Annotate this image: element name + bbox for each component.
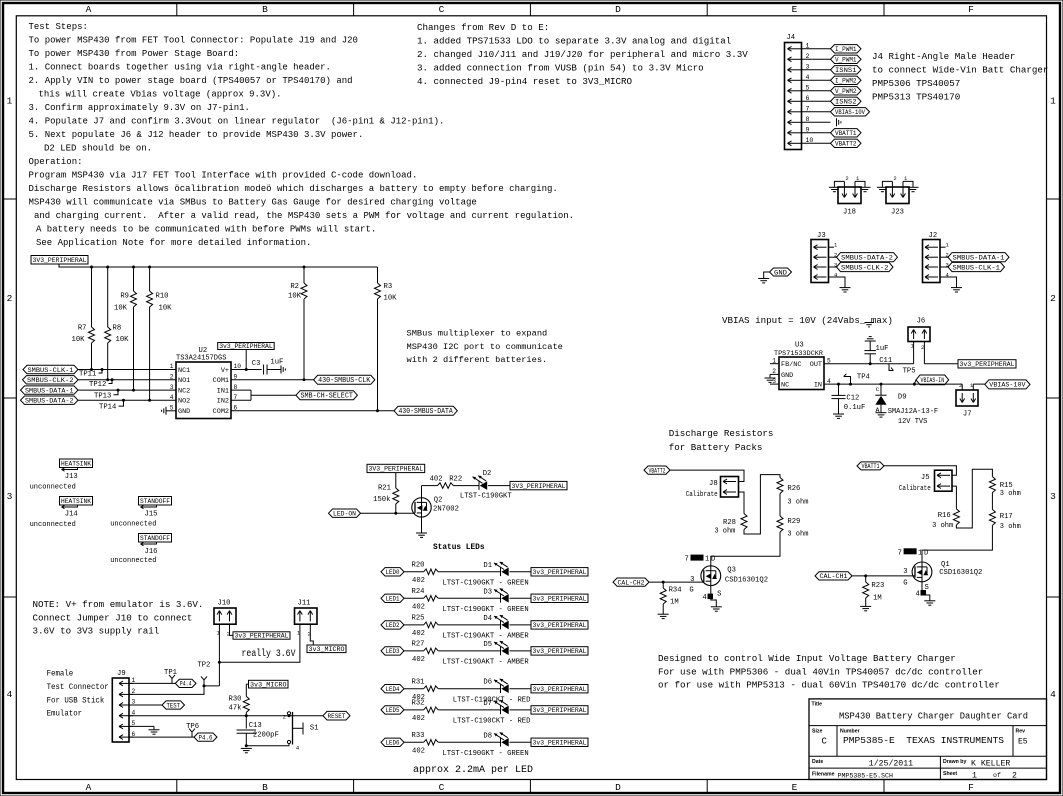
resistor R23 — [863, 576, 885, 607]
net tag TEST — [162, 701, 185, 710]
net tag 430-SMBUS-CLK — [314, 375, 375, 385]
svg-text:1: 1 — [7, 95, 13, 106]
svg-text:F: F — [968, 4, 974, 15]
svg-text:VBIAS-10V: VBIAS-10V — [835, 109, 866, 117]
connector J3 pin numbers 2 3 — [834, 252, 837, 269]
svg-text:GND: GND — [774, 269, 787, 277]
svg-text:C: C — [822, 737, 828, 747]
wire J23 pin1 to ground — [903, 181, 913, 187]
svg-text:PMP5385-E TEXAS INSTRUMENTS: PMP5385-E TEXAS INSTRUMENTS — [843, 736, 1004, 746]
junction dot S1 top on RESET — [288, 714, 291, 717]
power tag 3v3_PERIPHERAL at D6 — [531, 685, 588, 693]
svg-text:A battery needs to be communic: A battery needs to be communicated with … — [36, 225, 376, 235]
svg-text:D: D — [924, 549, 928, 557]
svg-text:NC2: NC2 — [178, 388, 190, 396]
svg-text:Q2: Q2 — [434, 496, 443, 504]
wire R25 to D4 — [438, 624, 500, 626]
junction dot R8 / SMBUS-CLK-2 — [106, 378, 109, 381]
svg-text:Female: Female — [47, 670, 74, 679]
wire SMBUS-DATA-2 to U2 pin4 — [78, 399, 176, 401]
svg-text:VBATT2: VBATT2 — [835, 141, 857, 149]
svg-text:SMBus multiplexer to expand: SMBus multiplexer to expand — [407, 329, 548, 339]
wire VBATT2 to J8 pin1 — [670, 470, 744, 481]
test point TP12 — [89, 378, 114, 389]
svg-text:SMBUS-CLK-2: SMBUS-CLK-2 — [27, 377, 74, 385]
wire J11 pin2 to 3v3_MICRO — [310, 624, 313, 645]
svg-text:E: E — [792, 4, 798, 15]
svg-text:I_PWM1: I_PWM1 — [835, 46, 857, 54]
net tag VBIAS-IN — [914, 375, 948, 385]
svg-text:2: 2 — [806, 53, 810, 60]
svg-text:10K: 10K — [288, 293, 302, 301]
label Q3 drain pins 7 8 D — [685, 555, 716, 564]
svg-text:P4.4: P4.4 — [180, 681, 192, 689]
transistor Q2 2N7002 — [412, 496, 459, 517]
svg-text:2N7002: 2N7002 — [433, 506, 459, 514]
svg-text:2: 2 — [7, 293, 13, 304]
junction dot C13 / S1 return — [245, 744, 248, 747]
wire U3 pin3 stub — [770, 383, 779, 385]
svg-text:TP12: TP12 — [89, 381, 106, 389]
wire J6 pin1 down to OUT — [913, 342, 915, 364]
svg-text:B: B — [262, 782, 268, 793]
svg-text:Calibrate: Calibrate — [899, 485, 931, 493]
wire VBATT1 to J5 pin1 — [884, 466, 956, 476]
svg-text:2: 2 — [946, 252, 949, 259]
resistor R17 — [989, 509, 1020, 531]
jumper J23 pin numbers — [893, 175, 908, 182]
net tag LED2 — [381, 621, 404, 631]
svg-text:FB/NC: FB/NC — [781, 361, 801, 369]
svg-text:5: 5 — [806, 84, 810, 91]
power tag 3V3_PERIPHERAL (rail) — [31, 256, 88, 265]
test point TP2 — [197, 662, 210, 686]
svg-text:1: 1 — [946, 242, 950, 249]
svg-text:approx 2.2mA per LED: approx 2.2mA per LED — [413, 765, 533, 776]
resistor R15 — [989, 477, 1020, 499]
junction dot R21 / gate — [394, 512, 397, 515]
net tag SMBUS-DATA-1 — [948, 253, 1009, 263]
jumper J23 pin2 arrow — [890, 182, 895, 198]
jumper J18 body — [838, 187, 861, 204]
svg-text:3 ohm: 3 ohm — [932, 522, 953, 530]
wire D1 to power tag — [510, 571, 532, 573]
svg-text:3: 3 — [170, 384, 174, 391]
resistor R25 — [412, 615, 439, 639]
wire J9 pin1 to P4.4 — [129, 682, 175, 684]
label Q3 source pin — [702, 591, 721, 603]
resistor R29 — [777, 516, 808, 539]
svg-text:J11: J11 — [298, 600, 311, 608]
net tag P4.4 — [175, 679, 196, 688]
wire R32 to D7 — [438, 709, 500, 711]
connector J4 pin 10 arrow — [788, 141, 802, 146]
junction dot R2 / COM1 — [303, 378, 306, 381]
net tag VBATT2 — [644, 466, 670, 475]
svg-text:I_PWM2: I_PWM2 — [835, 78, 857, 86]
svg-text:LED5: LED5 — [386, 707, 400, 715]
power tag 3v3_PERIPHERAL at D1 — [531, 568, 588, 576]
wire J2 pin 4 to ground — [940, 272, 957, 288]
svg-text:3: 3 — [946, 262, 949, 269]
wire U3 OUT to J6 pin1 — [824, 363, 914, 365]
svg-text:D8: D8 — [483, 732, 492, 740]
net tag VBIAS-10V — [831, 108, 870, 118]
wire J2 pin 2 — [940, 256, 948, 258]
svg-text:1. Connect boards together usi: 1. Connect boards together using via rig… — [29, 63, 331, 73]
svg-text:Status LEDs: Status LEDs — [433, 542, 485, 552]
svg-text:3: 3 — [806, 63, 810, 70]
mechanical J13 HEATSINK tag — [30, 459, 93, 492]
wire J4 pin 8 — [802, 121, 831, 123]
svg-text:V_PWM1: V_PWM1 — [835, 57, 857, 65]
svg-text:TP14: TP14 — [99, 404, 116, 412]
net tag VBIAS-10V — [985, 380, 1030, 390]
svg-text:R34: R34 — [669, 586, 682, 594]
svg-text:J16: J16 — [145, 548, 158, 556]
svg-text:3: 3 — [834, 262, 837, 269]
svg-text:Operation:: Operation: — [29, 157, 83, 167]
wire D5 to power tag — [510, 650, 532, 652]
note text: discharge resistors for battery packs — [669, 428, 774, 453]
svg-text:unconnected: unconnected — [30, 484, 76, 492]
net tag LED1 — [381, 594, 404, 604]
svg-text:C: C — [439, 4, 445, 15]
net tag VBATT2 — [831, 139, 862, 149]
wire D8 to power tag — [510, 741, 532, 743]
svg-text:3V3_PERIPHERAL: 3V3_PERIPHERAL — [369, 466, 424, 473]
svg-text:MSP430 Battery Charger Daughte: MSP430 Battery Charger Daughter Card — [839, 712, 1028, 722]
resistor R3 — [375, 267, 398, 411]
svg-text:really 3.6V: really 3.6V — [242, 648, 296, 659]
svg-text:Emulator: Emulator — [47, 710, 83, 719]
svg-text:R22: R22 — [449, 475, 462, 483]
net tag SMBUS-DATA-2 — [21, 396, 79, 406]
svg-text:CSD16301Q2: CSD16301Q2 — [725, 577, 768, 585]
connector J3 pin 4 arrow — [814, 275, 827, 280]
svg-text:4: 4 — [1050, 689, 1056, 700]
jumper J18 pin2 arrow — [842, 182, 847, 198]
ground at J18 pin2 — [829, 187, 840, 191]
ground at J23 pin1 — [908, 187, 919, 191]
ground below D9 — [876, 413, 887, 417]
svg-text:J7: J7 — [963, 411, 972, 419]
wire LED3 to R27 — [404, 650, 424, 652]
svg-text:Filename: Filename — [812, 771, 835, 777]
junction dot R30 / RESET — [245, 714, 248, 717]
connector J3 pin 2 arrow — [814, 255, 827, 260]
svg-text:R25: R25 — [412, 615, 425, 623]
svg-text:this will create Vbias voltage: this will create Vbias voltage (approx 9… — [39, 90, 282, 100]
svg-text:3.6V to 3V3 supply rail: 3.6V to 3V3 supply rail — [33, 626, 160, 637]
svg-text:VBATT1: VBATT1 — [835, 130, 857, 138]
svg-text:10K: 10K — [72, 336, 86, 344]
wire D2 to power tag — [488, 485, 510, 487]
svg-text:C12: C12 — [846, 395, 859, 403]
power tag 3v3_PERIPHERAL at D7 — [531, 706, 588, 714]
svg-text:3v3_PERIPHERAL: 3v3_PERIPHERAL — [533, 739, 587, 746]
svg-text:VBIAS input = 10V (24Vabs_ max: VBIAS input = 10V (24Vabs_ max) — [722, 315, 893, 326]
svg-text:D2: D2 — [483, 470, 492, 478]
wire R28 bottom loop to R26 top — [744, 475, 780, 534]
wire J4 pin 9 — [802, 132, 831, 134]
svg-text:R30: R30 — [229, 695, 242, 703]
LED D3 — [483, 588, 508, 602]
svg-text:2: 2 — [921, 344, 924, 351]
svg-text:G: G — [903, 579, 907, 587]
junction dot R9 / SMBUS-DATA-1 — [132, 389, 135, 392]
svg-text:D3: D3 — [483, 588, 492, 596]
wire 3V3_PERIPHERAL rail — [59, 264, 378, 267]
svg-text:OUT: OUT — [810, 361, 822, 369]
svg-text:3. added connection from VUSB: 3. added connection from VUSB (pin 54) t… — [417, 63, 704, 74]
svg-text:SMAJ12A-13-F: SMAJ12A-13-F — [888, 408, 938, 416]
svg-text:D: D — [615, 782, 621, 793]
svg-text:Program MSP430 via J17 FET Too: Program MSP430 via J17 FET Tool Interfac… — [29, 171, 418, 181]
svg-text:1: 1 — [806, 42, 810, 49]
svg-text:47k: 47k — [229, 705, 242, 713]
resistor R16 — [932, 509, 959, 530]
svg-text:3V3_PERIPHERAL: 3V3_PERIPHERAL — [512, 483, 566, 490]
wire U2 IN1 IN2 bracket to SMB-CH-SELECT — [231, 390, 296, 400]
svg-text:C: C — [439, 782, 445, 793]
wire R22 to D2 — [453, 485, 479, 487]
wire R17 to Q1 drain — [922, 525, 992, 561]
test point TP14 — [99, 399, 125, 412]
svg-text:C: C — [876, 386, 880, 393]
wire J4 pin 1 — [802, 48, 831, 50]
power tag 3v3_PERIPHERAL at D5 — [531, 647, 588, 655]
wire D7 to power tag — [510, 709, 532, 711]
connector J2 pin 1 arrow — [925, 245, 938, 250]
wire R29 to Q3 drain — [711, 532, 780, 566]
junction dot R23 tap — [864, 574, 867, 577]
svg-text:6: 6 — [806, 95, 810, 102]
junction dot R34 tap — [662, 581, 665, 584]
wire J4 pin 7 — [802, 111, 831, 113]
connector J5 arrows — [937, 473, 950, 489]
svg-text:D: D — [711, 556, 715, 564]
jumper J23 pin1 arrow — [901, 182, 906, 198]
power tag 3V3_PERIPHERAL above R21 — [367, 464, 425, 472]
net tag SMBUS-CLK-2 — [837, 262, 894, 272]
connector J4 pin 2 arrow — [788, 57, 802, 62]
junction dot TP2 — [203, 684, 206, 687]
svg-text:TP2: TP2 — [197, 662, 210, 670]
connector J2 pin 3 arrow — [925, 265, 938, 270]
svg-text:4: 4 — [170, 394, 174, 401]
svg-text:V+: V+ — [221, 367, 229, 375]
svg-text:ISNS2: ISNS2 — [835, 99, 857, 107]
svg-text:LTST-C190GKT - GREEN: LTST-C190GKT - GREEN — [442, 580, 528, 588]
svg-text:J15: J15 — [145, 511, 158, 519]
svg-text:R10: R10 — [156, 293, 169, 301]
wire J18 pin2 to ground — [834, 181, 844, 187]
label Q3 gate pin — [689, 576, 694, 595]
title block dividers — [809, 726, 1047, 780]
ground at J9 pin5 — [149, 730, 160, 734]
wire J6 pin2 to 3v3_PERIPHERAL — [924, 342, 958, 364]
svg-text:HEATSINK: HEATSINK — [61, 498, 91, 505]
connector J2 pin 4 arrow — [925, 275, 938, 280]
svg-text:12V TVS: 12V TVS — [898, 418, 927, 426]
connector J4 pin 1 arrow — [788, 46, 802, 51]
svg-text:PMP5385-E5.SCH: PMP5385-E5.SCH — [838, 772, 893, 779]
svg-text:CAL-CH1: CAL-CH1 — [820, 573, 848, 581]
test point TP6 — [186, 723, 199, 737]
svg-text:2: 2 — [170, 374, 174, 381]
net tag ISNS1 — [831, 66, 862, 76]
svg-text:Connect Jumper J10 to connect: Connect Jumper J10 to connect — [33, 612, 193, 623]
connector J9 pin 4 arrow — [119, 713, 133, 718]
svg-text:3v3_PERIPHERAL: 3v3_PERIPHERAL — [219, 343, 273, 350]
net tag LED-ON — [329, 509, 361, 519]
svg-text:D9: D9 — [898, 393, 907, 401]
IC U3 body — [779, 357, 824, 390]
connector J8 refdes — [686, 480, 718, 499]
junction dot R7 / SMBUS-CLK-1 — [90, 368, 93, 371]
wire D4 to power tag — [510, 624, 532, 626]
svg-text:LED-ON: LED-ON — [333, 511, 356, 519]
svg-text:R26: R26 — [787, 485, 800, 493]
svg-text:PMP5313 TPS40170: PMP5313 TPS40170 — [872, 92, 960, 103]
test point TP13 — [94, 389, 120, 401]
svg-text:R20: R20 — [412, 562, 425, 570]
IC U3 refdes TPS71533DCKR — [774, 342, 823, 358]
power tag 3v3_MICRO at J11 — [307, 645, 346, 653]
wire J18 pin1 to ground — [855, 181, 865, 187]
svg-text:or for use with PMP5313 - dual: or for use with PMP5313 - dual 60Vin TPS… — [658, 680, 1000, 691]
net tag GND — [770, 268, 792, 277]
svg-text:J8: J8 — [709, 480, 718, 488]
svg-text:GND: GND — [178, 408, 190, 416]
junction dot IN / VBIAS-IN — [913, 383, 916, 386]
svg-text:J9: J9 — [117, 670, 126, 678]
svg-text:1uF: 1uF — [270, 358, 283, 366]
test point TP11 — [79, 368, 104, 379]
mechanical J14 HEATSINK tag — [30, 497, 93, 530]
svg-text:Q1: Q1 — [941, 561, 950, 569]
svg-text:LTST-C190CKT - RED: LTST-C190CKT - RED — [453, 718, 531, 726]
resistor R34 — [660, 582, 681, 614]
svg-text:LTST-C190AKT - AMBER: LTST-C190AKT - AMBER — [442, 659, 529, 667]
wire U3 pin1 stub — [770, 363, 779, 365]
wire R15 to R17 — [991, 493, 993, 510]
net tag SMBUS-DATA-2 — [837, 253, 898, 263]
wire J7 pin2 up to IN — [961, 384, 963, 390]
IC U2 left pin numbers — [170, 363, 174, 411]
svg-text:SMBUS-CLK-1: SMBUS-CLK-1 — [953, 264, 1001, 272]
wire U3 IN line — [824, 383, 962, 385]
wire J4 pin 3 — [802, 69, 831, 71]
wire LED1 to R24 — [404, 597, 424, 599]
LED D7 — [483, 700, 508, 714]
svg-text:J23: J23 — [891, 209, 904, 217]
svg-text:1. added TPS71533 LDO to separ: 1. added TPS71533 LDO to separate 3.3V a… — [417, 36, 731, 47]
wire SMBUS-DATA-1 to U2 pin3 — [78, 389, 176, 391]
svg-text:NO1: NO1 — [178, 377, 190, 385]
resistor R24 — [412, 588, 439, 612]
connector J9 pin 6 arrow — [119, 735, 133, 740]
resistor R32 — [412, 700, 439, 724]
svg-text:GND: GND — [781, 372, 793, 380]
note text: female test connector — [47, 670, 109, 719]
svg-text:3 ohm: 3 ohm — [1000, 490, 1021, 498]
svg-text:E: E — [792, 782, 798, 793]
svg-text:4: 4 — [296, 745, 300, 752]
ground at J23 pin2 — [877, 187, 888, 191]
note text: NOTE V+ from emulator — [33, 599, 204, 637]
connector J4 pin 6 arrow — [788, 99, 802, 104]
svg-text:TP6: TP6 — [186, 723, 199, 731]
svg-text:TP13: TP13 — [94, 392, 111, 400]
svg-text:LED3: LED3 — [386, 648, 400, 656]
label Q1 drain pins 7 8 D — [898, 548, 929, 557]
svg-text:RESET: RESET — [328, 713, 346, 721]
svg-text:NC: NC — [781, 382, 789, 390]
wire J4 pin 5 — [802, 90, 831, 92]
wire CAL-CH2 to Q3 gate — [649, 581, 704, 583]
note text: designed to control wide input voltage — [658, 653, 1000, 691]
svg-text:J4 Right-Angle Male Header: J4 Right-Angle Male Header — [872, 51, 1015, 62]
net tag LED0 — [381, 568, 404, 578]
svg-text:P4.6: P4.6 — [199, 734, 213, 742]
resistor R21 — [373, 473, 399, 514]
resistor R33 — [412, 732, 439, 756]
junction dot R3 / COM2 — [376, 409, 379, 412]
net tag LED4 — [381, 685, 404, 695]
svg-text:B: B — [262, 4, 268, 15]
svg-text:STANDOFF: STANDOFF — [140, 535, 170, 542]
svg-text:TP4: TP4 — [857, 373, 870, 381]
svg-text:Discharge Resistors: Discharge Resistors — [669, 428, 774, 439]
ground below R34 — [658, 614, 669, 618]
svg-text:LED0: LED0 — [386, 569, 400, 577]
wire CAL-CH1 to Q1 gate — [852, 575, 915, 577]
svg-text:D4: D4 — [483, 615, 492, 623]
wire J4 pin 6 — [802, 100, 831, 102]
wire J9 pin6 to P4.6 — [129, 736, 194, 738]
svg-text:3v3_PERIPHERAL: 3v3_PERIPHERAL — [533, 622, 587, 629]
svg-text:E5: E5 — [1018, 738, 1028, 747]
IC U3 pin names — [781, 361, 822, 389]
svg-text:R16: R16 — [938, 512, 951, 520]
svg-text:SMBUS-DATA-2: SMBUS-DATA-2 — [841, 255, 893, 263]
svg-text:10K: 10K — [116, 336, 130, 344]
svg-text:10: 10 — [806, 137, 814, 144]
svg-text:3v3_PERIPHERAL: 3v3_PERIPHERAL — [960, 361, 1015, 368]
svg-text:2: 2 — [893, 175, 896, 182]
svg-text:402: 402 — [412, 715, 425, 723]
svg-text:R21: R21 — [378, 485, 391, 493]
svg-text:J6: J6 — [917, 318, 926, 326]
wire J9 pin3 to TEST — [129, 704, 162, 706]
wire J4 pin 10 — [802, 142, 831, 144]
net tag ISNS2 — [831, 97, 862, 107]
svg-text:R33: R33 — [412, 732, 425, 740]
svg-text:SMBUS-DATA-2: SMBUS-DATA-2 — [25, 398, 74, 406]
svg-text:J4: J4 — [786, 34, 795, 42]
wire J23 pin2 to ground — [882, 181, 892, 187]
connector J5 body — [935, 470, 953, 491]
wire LED4 to R31 — [404, 688, 424, 690]
note text: J4 header description — [872, 51, 1048, 103]
wire LED6 to R33 — [404, 741, 424, 743]
jumper J18 pin1 arrow — [853, 182, 858, 198]
LED D1 — [483, 562, 508, 576]
svg-text:4: 4 — [806, 74, 810, 81]
net tag 430-SMBUS-DATA — [394, 406, 457, 416]
